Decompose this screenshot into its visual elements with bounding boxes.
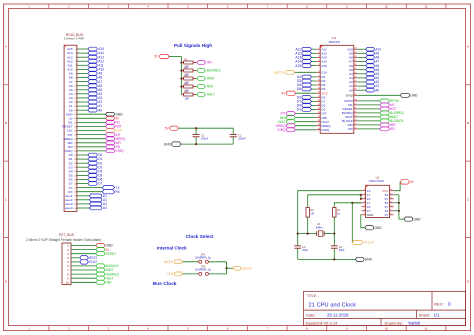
resistor R1 10K — [181, 62, 183, 64]
svg-text:A0: A0 — [375, 88, 379, 92]
RC40_BUS wires — [77, 49, 106, 208]
svg-text:Bus Clock: Bus Clock — [153, 281, 177, 287]
RC40_BUS pin numbers — [74, 49, 77, 210]
wire 1A node — [298, 191, 362, 234]
svg-text:IORQ: IORQ — [277, 128, 286, 132]
ground flag (U1 gnd pin) — [365, 226, 374, 230]
U1 GND pin wire — [361, 215, 365, 228]
svg-text:A0: A0 — [349, 88, 353, 92]
svg-text:2.54mm 1*10P Straight Female h: 2.54mm 1*10P Straight Female header Gold… — [26, 238, 101, 242]
svg-text:TITLE:: TITLE: — [307, 294, 317, 298]
resistor R3 10K — [181, 78, 183, 80]
wire crystal bus — [298, 233, 317, 235]
wire 5V rail — [169, 56, 181, 58]
junction — [398, 202, 400, 204]
RC40_BUS net labels — [98, 47, 125, 210]
net flag HALT — [197, 93, 205, 97]
resistor R2 10K — [181, 70, 183, 72]
svg-text:21 CPU and Clock: 21 CPU and Clock — [309, 302, 357, 308]
svg-text:Clock Select: Clock Select — [186, 234, 214, 239]
svg-text:JUMPER_2p: JUMPER_2p — [195, 268, 212, 272]
net flag NMI — [197, 85, 205, 89]
svg-text:B: B — [5, 121, 7, 125]
svg-text:GND: GND — [375, 226, 383, 230]
capacitor C4 33pF — [333, 234, 335, 246]
svg-text:NMI: NMI — [207, 85, 213, 89]
U1 VCC wire — [394, 182, 400, 191]
svg-text:74HCT04N: 74HCT04N — [369, 179, 384, 183]
IC1 pin stubs — [316, 49, 358, 130]
capacitor C1 100nF — [195, 128, 197, 134]
svg-text:Date:: Date: — [306, 312, 316, 317]
svg-text:GND: GND — [367, 213, 375, 217]
junction — [180, 69, 182, 71]
capacitor C2 100nF — [232, 128, 234, 134]
net flag BUSREQ — [197, 69, 205, 73]
junction — [297, 233, 299, 235]
svg-text:1K: 1K — [337, 211, 340, 215]
svg-text:CLK: CLK — [167, 272, 174, 276]
svg-text:RD: RD — [390, 127, 395, 131]
U1 pin numbers — [364, 189, 393, 215]
svg-text:4MHz: 4MHz — [316, 226, 323, 230]
U1 pin stubs — [361, 191, 393, 215]
svg-text:JUMPER_2p: JUMPER_2p — [195, 256, 212, 260]
wire 1Y to R6 — [308, 195, 362, 208]
svg-text:1M: 1M — [310, 211, 314, 215]
junction — [195, 143, 197, 145]
svg-text:karlab: karlab — [409, 320, 421, 325]
power flag 5V (decoupling) — [170, 126, 179, 130]
svg-text:intCLK: intCLK — [164, 260, 174, 264]
power flag 5V (U1) — [400, 180, 409, 184]
svg-text:100nF: 100nF — [201, 137, 209, 141]
junction — [180, 61, 182, 63]
junction — [360, 194, 362, 196]
svg-text:int CLK: int CLK — [363, 241, 374, 245]
U1 unused input ties — [394, 194, 399, 196]
connector EXT_BUS body — [62, 243, 71, 285]
svg-text:A: A — [5, 45, 7, 49]
svg-text:A0: A0 — [98, 108, 102, 112]
svg-text:GND: GND — [164, 142, 172, 146]
junction — [180, 77, 182, 79]
svg-text:A: A — [467, 45, 469, 49]
IC1 right net flags — [366, 47, 410, 130]
IC1 right net labels — [375, 47, 418, 131]
svg-text:R7: R7 — [337, 208, 341, 212]
svg-text:D7: D7 — [98, 182, 102, 186]
IC1 pin numbers — [317, 48, 357, 131]
svg-text:INT: INT — [207, 61, 212, 65]
IC1 left net flags — [286, 47, 312, 131]
wire 5V rail — [178, 127, 233, 129]
svg-text:Internal Clock: Internal Clock — [157, 245, 187, 250]
svg-text:B: B — [467, 121, 469, 125]
IC1 pin names — [321, 47, 353, 132]
svg-text:X1: X1 — [317, 222, 321, 226]
svg-text:user4: user4 — [65, 206, 73, 210]
wire 1Y-2A jog — [360, 195, 362, 199]
svg-text:GND: GND — [414, 217, 422, 221]
svg-text:U4: U4 — [103, 206, 107, 210]
net flag INT — [197, 61, 205, 65]
junction — [180, 85, 182, 87]
junction — [195, 127, 197, 129]
svg-text:2.54mm 1*40P: 2.54mm 1*40P — [64, 37, 84, 41]
U1 pin names — [367, 189, 389, 217]
svg-text:Z80CPU: Z80CPU — [329, 40, 341, 44]
svg-text:10: 10 — [385, 327, 389, 331]
junction — [333, 233, 335, 235]
svg-text:RESET: RESET — [106, 252, 117, 256]
wire jumper join — [226, 262, 228, 274]
svg-text:HALT: HALT — [207, 93, 215, 97]
svg-text:33pF: 33pF — [339, 248, 345, 252]
svg-text:IORQ: IORQ — [321, 128, 330, 132]
power flag 5V (pull-ups) — [160, 54, 170, 58]
svg-text:D1: D1 — [297, 108, 301, 112]
svg-text:1/1: 1/1 — [434, 312, 441, 317]
resistor R5 10K — [181, 94, 183, 96]
capacitor C5 33pF — [297, 234, 299, 246]
resistor R7 1K — [333, 208, 336, 218]
junction — [333, 258, 335, 260]
svg-text:REV:: REV: — [434, 302, 443, 307]
svg-text:11: 11 — [425, 5, 428, 9]
title block — [303, 292, 465, 326]
junction — [225, 267, 227, 269]
svg-text:29.12.2018: 29.12.2018 — [327, 312, 349, 317]
resistor R4 10K — [181, 86, 183, 88]
svg-text:D: D — [448, 302, 451, 307]
svg-text:Drawn By:: Drawn By: — [385, 320, 403, 325]
svg-text:10: 10 — [385, 5, 389, 9]
svg-text:11: 11 — [425, 327, 428, 331]
svg-text:EasyEDA V5.3.14: EasyEDA V5.3.14 — [306, 320, 339, 325]
net flag int CLK — [352, 203, 361, 243]
svg-text:33pF: 33pF — [302, 248, 308, 252]
svg-text:D6: D6 — [297, 87, 301, 91]
svg-text:10: 10 — [65, 281, 69, 285]
wire 2Y to R7 — [334, 203, 361, 208]
svg-text:CLK2: CLK2 — [89, 260, 97, 264]
IC1 left wires — [295, 49, 317, 130]
svg-text:BUSREQ: BUSREQ — [207, 69, 221, 73]
svg-text:CLK: CLK — [321, 71, 328, 75]
IC1 right wires — [358, 49, 400, 129]
svg-text:100nF: 100nF — [238, 137, 246, 141]
wire GND rail — [181, 143, 233, 145]
junction — [398, 210, 400, 212]
svg-text:R6: R6 — [310, 208, 314, 212]
ground flag GND (decoupling) — [172, 142, 181, 146]
svg-text:NMI: NMI — [106, 281, 112, 285]
net flag WAIT — [197, 77, 205, 81]
svg-text:GND: GND — [346, 94, 354, 98]
svg-text:IORQ: IORQ — [116, 149, 125, 153]
svg-text:GND: GND — [410, 94, 418, 98]
ground flag (osc) — [355, 257, 364, 261]
junction — [307, 233, 309, 235]
resistor R6 1M — [306, 208, 309, 218]
connector RC40_BUS body — [64, 45, 77, 211]
svg-text:A15: A15 — [295, 64, 301, 68]
svg-text:Sheet:: Sheet: — [419, 312, 431, 317]
svg-text:GND: GND — [365, 258, 373, 262]
svg-text:RD: RD — [348, 127, 353, 131]
svg-text:WAIT: WAIT — [207, 77, 215, 81]
RC40_BUS net flags — [88, 47, 115, 210]
net flag sysCLK out — [227, 267, 234, 269]
junction — [351, 202, 353, 204]
svg-text:sysCLK: sysCLK — [274, 71, 286, 75]
RC40_BUS pin names — [62, 47, 73, 210]
svg-text:Pull Signals High: Pull Signals High — [174, 43, 212, 48]
svg-text:4Y: 4Y — [385, 213, 389, 217]
IC1 left net labels — [274, 47, 301, 132]
IC U IC1 Z80CPU body — [320, 45, 354, 133]
svg-text:EXT_BUS: EXT_BUS — [59, 233, 75, 237]
svg-text:sysCLK: sysCLK — [241, 266, 253, 270]
junction — [360, 198, 362, 200]
IC U1 74HCT04N body — [366, 185, 390, 217]
svg-text:10K: 10K — [184, 97, 189, 101]
ground flag (U1 unused) — [404, 217, 413, 221]
svg-text:A15: A15 — [321, 64, 327, 68]
wire gnd rail — [298, 258, 356, 260]
